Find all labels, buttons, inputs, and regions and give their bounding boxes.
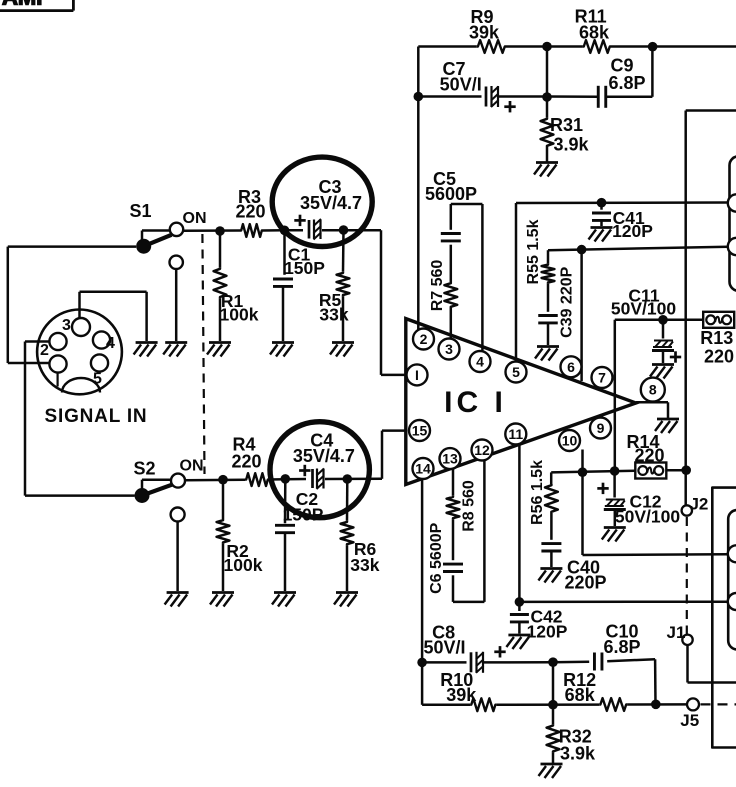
ground DIN pin3 <box>134 343 158 357</box>
svg-text:220: 220 <box>235 202 265 222</box>
connector pin lower B <box>728 593 736 610</box>
capacitor C39 <box>538 266 575 345</box>
ground C39 <box>535 347 559 361</box>
resistor R4 <box>231 435 269 487</box>
svg-text:3: 3 <box>445 341 453 357</box>
wire ch1 signal row <box>183 230 406 375</box>
ground R5 <box>330 343 354 357</box>
DIN pin 3 <box>62 317 90 336</box>
svg-text:120P: 120P <box>527 621 568 641</box>
svg-text:3.9k: 3.9k <box>560 744 596 764</box>
svg-text:7: 7 <box>598 370 606 386</box>
svg-text:15: 15 <box>412 423 428 439</box>
pin I IC1 <box>407 364 428 385</box>
junction R31 top <box>542 92 552 102</box>
svg-text:6.8P: 6.8P <box>603 637 640 657</box>
svg-text:50V/100: 50V/100 <box>611 299 676 319</box>
junction C8 left <box>417 658 427 668</box>
svg-text:68k: 68k <box>579 23 610 43</box>
capacitor C40 <box>541 544 606 593</box>
svg-text:R55 1.5k: R55 1.5k <box>525 219 542 284</box>
node J2 <box>682 495 709 516</box>
wire R56 rail to R14 <box>551 470 686 472</box>
svg-text:39k: 39k <box>469 23 500 43</box>
svg-text:100k: 100k <box>224 555 263 575</box>
svg-text:J2: J2 <box>689 495 708 514</box>
svg-text:2: 2 <box>40 342 49 359</box>
junction R14 right <box>681 465 691 475</box>
junction pin10 drop <box>578 467 588 477</box>
pin 12 IC1 <box>472 440 493 461</box>
wire J1 to block <box>688 645 736 683</box>
pin 9 IC1 <box>590 418 611 439</box>
wire R10 row <box>422 662 687 704</box>
capacitor C4 <box>293 431 355 490</box>
capacitor C2 <box>275 479 324 591</box>
junction C1 top <box>280 226 290 236</box>
pin 11 IC1 <box>505 424 526 445</box>
capacitor C42 <box>510 602 568 642</box>
switch S2 off throw <box>171 508 185 592</box>
svg-text:AMP: AMP <box>2 0 51 10</box>
svg-text:3.9k: 3.9k <box>553 135 589 155</box>
wire C6/R8 bracket <box>453 461 484 602</box>
capacitor C3 <box>294 177 362 240</box>
capacitor C10 <box>594 622 640 671</box>
svg-text:33k: 33k <box>350 555 379 575</box>
switch S1 <box>129 201 206 254</box>
svg-text:68k: 68k <box>565 685 596 705</box>
resistor R11 <box>575 7 611 53</box>
resistor R12 <box>563 670 627 711</box>
ground C42 <box>506 635 530 649</box>
highlight circle around C4 <box>270 422 369 518</box>
svg-text:14: 14 <box>415 461 431 477</box>
ground S1 off <box>163 343 187 357</box>
resistor R2 <box>217 480 263 591</box>
svg-text:6: 6 <box>567 359 575 375</box>
capacitor C5 <box>425 169 477 241</box>
resistor R7 <box>429 260 457 312</box>
junction C8/C10 <box>548 657 558 667</box>
ground C12 <box>602 528 626 542</box>
wire pin14 riser <box>421 479 424 662</box>
svg-text:50V/100: 50V/100 <box>615 507 680 527</box>
resistor R32 <box>547 705 596 764</box>
node J1 <box>667 623 693 645</box>
wire top feedback rail ch1 <box>418 45 736 48</box>
svg-text:2: 2 <box>420 331 428 347</box>
op-amp IC1 body <box>406 319 636 485</box>
pin 14 IC1 <box>413 458 434 479</box>
DIN pin 4 <box>93 331 115 352</box>
wire pin5 to C41 rail <box>516 203 728 362</box>
junction C2 top <box>281 474 291 484</box>
junction C11 <box>658 315 668 325</box>
svg-text:SIGNAL IN: SIGNAL IN <box>45 406 148 427</box>
svg-text:35V/4.7: 35V/4.7 <box>293 446 355 466</box>
svg-text:ON: ON <box>183 210 207 227</box>
svg-text:R31: R31 <box>550 115 583 135</box>
wire C7 row <box>418 47 652 97</box>
ground C11 <box>650 365 674 379</box>
capacitor C8 <box>423 623 505 673</box>
svg-text:220: 220 <box>231 452 261 472</box>
ground C40 <box>538 569 562 583</box>
resistor R3 <box>235 187 265 237</box>
svg-text:220: 220 <box>634 446 664 466</box>
capacitor C11 <box>611 286 681 364</box>
capacitor C41 <box>592 203 653 241</box>
pin 4 IC1 <box>470 351 491 372</box>
DIN pin 5 <box>91 354 108 387</box>
svg-text:R13: R13 <box>700 328 733 348</box>
pin 15 IC1 <box>409 420 430 441</box>
svg-text:S2: S2 <box>133 459 155 479</box>
connector pin upper A <box>728 194 736 211</box>
junction C9 top <box>648 42 658 52</box>
node J5 <box>680 698 699 730</box>
connector block upper (next stage) <box>730 156 736 290</box>
svg-text:ON: ON <box>180 458 204 475</box>
ground C2 <box>272 593 296 607</box>
resistor R8 <box>447 480 478 532</box>
svg-text:4: 4 <box>476 354 484 370</box>
svg-text:J1: J1 <box>667 623 686 642</box>
svg-text:5: 5 <box>93 371 102 388</box>
pin 7 IC1 <box>592 367 613 388</box>
wire DIN pin2 to S2 <box>25 342 135 496</box>
junction R55 rail <box>577 245 587 255</box>
svg-text:33k: 33k <box>319 305 348 325</box>
wire B+ bus from top sheet <box>686 111 736 506</box>
wire R55 rail <box>548 247 728 250</box>
svg-text:9: 9 <box>597 420 605 436</box>
junction C12 top <box>610 466 620 476</box>
svg-text:220P: 220P <box>564 573 606 593</box>
svg-text:R7 560: R7 560 <box>429 260 446 312</box>
wire pin7 to C11 rail <box>615 320 703 471</box>
ground R1 <box>207 343 231 357</box>
ground R31 <box>534 163 558 177</box>
resistor R1 <box>214 231 259 341</box>
svg-text:100k: 100k <box>220 305 259 325</box>
svg-text:3: 3 <box>62 317 71 334</box>
svg-text:4: 4 <box>106 335 115 352</box>
resistor R6 <box>341 479 380 591</box>
svg-text:5: 5 <box>512 364 520 380</box>
block next stage lower <box>712 488 736 748</box>
junction R1 top <box>215 226 225 236</box>
dashed J5 out <box>701 703 736 705</box>
pin 3 IC1 <box>439 339 460 360</box>
svg-text:5600P: 5600P <box>425 184 477 204</box>
pin 13 IC1 <box>440 448 461 469</box>
pin 5 IC1 <box>506 362 527 383</box>
capacitor C12 <box>597 471 680 527</box>
connector pin lower A <box>728 545 736 562</box>
capacitor C6 <box>428 522 463 593</box>
wire DIN pin3 ground run <box>80 292 147 341</box>
resistor R56 <box>529 460 558 540</box>
wire pin2 riser <box>417 47 420 331</box>
wire pin11 to C42 rail <box>519 444 727 602</box>
wire S1 input from DIN <box>8 247 136 363</box>
svg-text:S1: S1 <box>129 201 151 221</box>
junction R10/R12/R32 <box>548 700 558 710</box>
svg-text:C39 220P: C39 220P <box>558 266 575 337</box>
svg-text:120P: 120P <box>612 221 653 241</box>
connector SIGNAL IN (DIN socket) <box>37 310 122 395</box>
svg-text:C6 5600P: C6 5600P <box>428 522 445 593</box>
svg-text:35V/4.7: 35V/4.7 <box>300 193 362 213</box>
svg-text:I: I <box>415 367 419 383</box>
svg-text:10: 10 <box>562 433 578 449</box>
resistor R9 <box>469 7 506 53</box>
pin 6 IC1 <box>561 356 582 377</box>
svg-text:R56 1.5k: R56 1.5k <box>529 460 546 525</box>
svg-text:IC I: IC I <box>444 386 507 419</box>
svg-text:150P: 150P <box>284 258 325 278</box>
connector pin upper B <box>728 238 736 255</box>
svg-text:6.8P: 6.8P <box>608 73 645 93</box>
switch S2 <box>133 458 203 504</box>
capacitor C7 <box>440 59 516 112</box>
resistor R10 <box>440 670 496 711</box>
dashed gang link S1-S2 <box>202 234 204 474</box>
junction R9/R11 <box>542 42 552 52</box>
wire R12 link <box>552 662 555 705</box>
svg-text:J5: J5 <box>680 711 699 730</box>
junction C41 <box>597 198 607 208</box>
svg-text:12: 12 <box>474 442 490 458</box>
wire pin10 to connector <box>583 450 728 556</box>
svg-text:R8 560: R8 560 <box>460 480 477 532</box>
ground R32 <box>539 764 563 778</box>
resistor R5 <box>319 230 350 341</box>
wire pin8 output stub <box>636 402 668 418</box>
pin 10 IC1 <box>559 430 580 451</box>
svg-text:50V/I: 50V/I <box>423 638 465 658</box>
ground S2 off <box>165 593 189 607</box>
ground R2 <box>210 593 234 607</box>
svg-text:39k: 39k <box>446 685 477 705</box>
junction C42 <box>515 597 525 607</box>
ground R6 <box>334 593 358 607</box>
ground pin8 <box>655 419 679 433</box>
resistor R31 <box>541 97 590 163</box>
capacitor C1 <box>273 230 325 341</box>
DIN pin 1 <box>49 355 66 372</box>
resistor R55 <box>525 219 554 311</box>
ground C41 <box>589 228 613 242</box>
pin 2 IC1 <box>413 329 434 350</box>
svg-text:8: 8 <box>649 382 657 398</box>
junction wire2 left <box>414 92 424 102</box>
resistor R14 (fusible) <box>626 432 666 479</box>
wire C5/R7 bracket <box>451 204 483 351</box>
junction R6 top <box>343 474 353 484</box>
svg-text:13: 13 <box>442 451 458 467</box>
resistor R13 (fusible) <box>700 312 734 367</box>
svg-text:220: 220 <box>704 347 734 367</box>
title box fragment (previous sheet label) <box>0 0 73 11</box>
wire ch2 signal row <box>185 431 407 481</box>
junction R2 top <box>218 475 228 485</box>
wire C8 row <box>422 659 655 704</box>
switch S1 off throw <box>170 256 183 341</box>
capacitor C9 <box>598 56 645 108</box>
svg-text:50V/I: 50V/I <box>440 75 482 95</box>
connector block lower <box>728 510 736 650</box>
ground C1 <box>270 343 294 357</box>
pin 8 IC1 <box>641 378 665 402</box>
dashed link J2-J1 <box>686 517 688 634</box>
svg-text:11: 11 <box>508 426 523 442</box>
DIN pin 2 <box>40 333 67 359</box>
wire pin6 drop <box>580 250 583 381</box>
highlight circle around C3 <box>272 157 372 246</box>
junction R5 top <box>339 225 349 235</box>
junction C10 drop <box>651 700 661 710</box>
